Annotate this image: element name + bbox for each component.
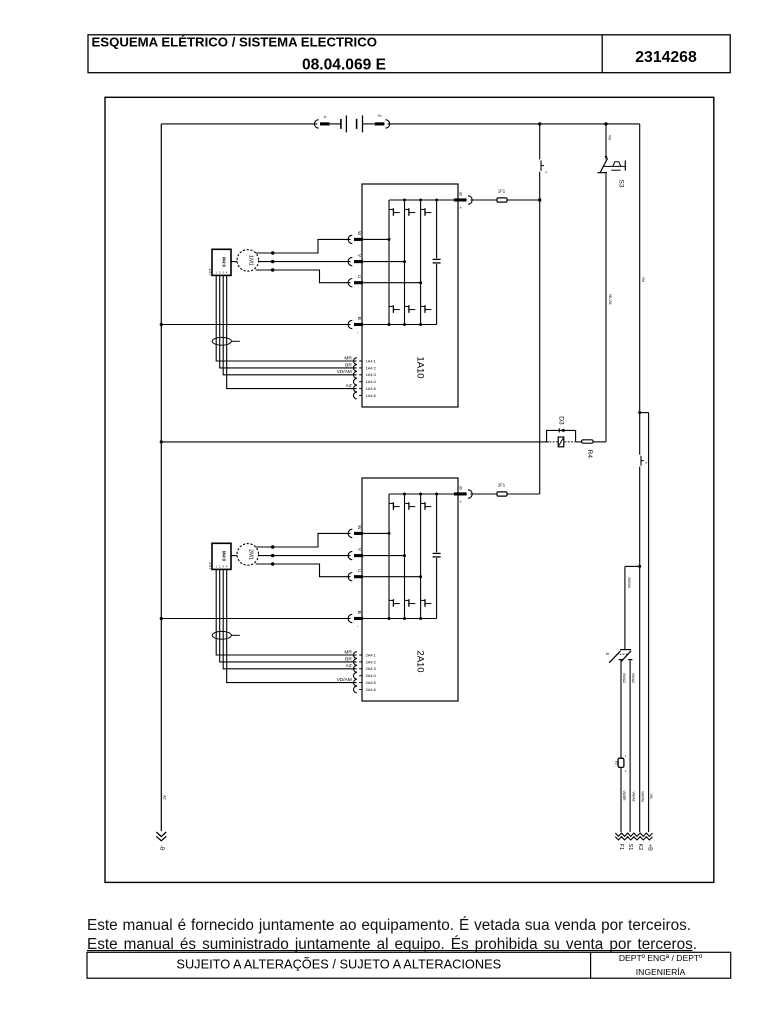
svg-text:D3: D3 [557, 416, 564, 425]
wire [576, 441, 582, 443]
svg-text:-b: -b [323, 115, 326, 119]
switch K1 top bar [620, 649, 631, 651]
terminal 1A4:6 [354, 392, 357, 399]
bridge leg 2 of 2A10 [404, 494, 406, 619]
svg-text:U: U [357, 569, 362, 573]
switch K1 contact ticks [619, 659, 623, 661]
svg-text:2A4:2: 2A4:2 [366, 659, 376, 664]
svg-text:AZ: AZ [346, 663, 352, 669]
title block frame [88, 35, 730, 73]
schematic border frame [105, 97, 714, 882]
svg-text:M4:0: M4:0 [222, 551, 227, 562]
manual note line 1 [87, 918, 691, 933]
footer table divider [590, 952, 592, 978]
wire branch to +B line [640, 412, 649, 414]
terminal 1A4:3 [354, 372, 357, 379]
wire 2X7 to motor [231, 555, 237, 557]
svg-text:+: + [460, 206, 463, 211]
wire 540 line upper [539, 124, 541, 159]
svg-text:1A4:1: 1A4:1 [366, 358, 376, 363]
svg-text:VD-VM: VD-VM [608, 294, 612, 305]
wire K1 right to S1 break [629, 660, 631, 832]
connector 1X7 [212, 249, 231, 275]
switch S3 actuator end bar [624, 160, 626, 170]
terminal 2A4:5 [353, 679, 356, 686]
wire 2X7 pin2 BR [220, 569, 357, 662]
svg-text:W: W [357, 231, 362, 236]
svg-text:a: a [545, 170, 547, 174]
terminal B+ of 1A10 [454, 198, 467, 201]
svg-text:VM: VM [608, 135, 612, 140]
bridge leg 1 of 2A10 [388, 494, 390, 619]
capacitor leg of 2A10 [436, 494, 438, 552]
svg-text:W: W [357, 525, 362, 530]
svg-text:VD/BR: VD/BR [622, 790, 626, 801]
svg-text:1: 1 [215, 270, 217, 274]
svg-text:2A4:1: 2A4:1 [366, 652, 376, 657]
svg-text:a: a [645, 461, 647, 465]
terminal 1A4:5 [354, 385, 357, 392]
wire right bus lower [639, 467, 641, 833]
motor 2M1 [237, 544, 259, 566]
svg-text:K2: K2 [637, 844, 643, 851]
terminal 1A4:2 [354, 365, 357, 372]
terminal W of 1A10 [348, 235, 352, 243]
motor 1M1 [237, 250, 259, 272]
svg-text:S3: S3 [618, 180, 625, 188]
node junctions top bus [403, 199, 406, 202]
svg-text:1M1: 1M1 [247, 255, 253, 266]
svg-text:2: 2 [219, 270, 221, 274]
wire B+ to fuse 2F1 [471, 493, 498, 495]
wire 1X7 pin1 MR [216, 275, 356, 361]
svg-text:2A4:3: 2A4:3 [366, 666, 376, 671]
wire 1X7 to motor [231, 261, 237, 263]
svg-text:1A4:6: 1A4:6 [366, 393, 376, 398]
manual note line 2 [87, 937, 697, 952]
svg-text:2A10: 2A10 [415, 650, 426, 672]
converter box 2A10 [362, 478, 458, 701]
svg-text:1A4:3: 1A4:3 [366, 372, 376, 377]
terminal B- of 2A10 [348, 614, 352, 622]
wire 1X7 pin2 BR [220, 275, 357, 368]
node junction right bus to K1 branch [638, 565, 641, 568]
wire break zigzag band [615, 833, 652, 836]
footer underline [87, 950, 693, 952]
motor terminal dots [271, 545, 274, 548]
switch S3 bottom contact bar [598, 172, 607, 174]
wire motor V phase [259, 261, 351, 263]
svg-text:B: B [357, 317, 362, 320]
transistor top leg1 [389, 502, 393, 504]
svg-text:VM/AZ: VM/AZ [622, 673, 626, 683]
wire motor W phase [256, 239, 351, 253]
transistor top leg2 [405, 208, 409, 210]
svg-text:B: B [459, 485, 462, 490]
wire top bus left [161, 123, 317, 125]
node junction left bus / B wire 1 [160, 323, 163, 326]
svg-text:4: 4 [226, 270, 228, 274]
wire motor V phase [259, 555, 351, 557]
svg-text:V: V [357, 254, 362, 258]
wire motor U phase [256, 564, 351, 577]
wire S3 lower to R4 row [605, 173, 607, 442]
transistor bottom leg1 [389, 599, 393, 601]
svg-text:2A4:4: 2A4:4 [366, 673, 377, 678]
transistor bottom leg2 [405, 305, 409, 307]
svg-text:1F1: 1F1 [498, 188, 506, 193]
wire U internal [364, 282, 421, 284]
svg-text:INGENIERÍA: INGENIERÍA [636, 967, 686, 977]
svg-text:MR: MR [344, 355, 352, 361]
cable clamp on 2X7 harness [212, 631, 231, 639]
svg-text:+B: +B [646, 844, 652, 851]
svg-text:VM/VM: VM/VM [640, 791, 644, 802]
wire internal bottom bus [364, 324, 437, 326]
battery G1 cell plates [340, 119, 342, 129]
cable clamp on 1X7 harness [212, 337, 231, 345]
svg-text:-: - [357, 624, 359, 629]
wire V internal [364, 555, 405, 557]
terminal 2A4:6 [354, 686, 357, 693]
terminal W of 2A10 [348, 529, 352, 537]
node junctions bottom bus [388, 617, 391, 620]
bridge leg 2 of 1A10 [404, 200, 406, 325]
svg-text:F2: F2 [614, 761, 618, 765]
capacitor leg of 1A10 [436, 200, 438, 258]
node junctions bottom bus [388, 323, 391, 326]
svg-text:U: U [357, 275, 362, 279]
transistor top leg1 [389, 208, 393, 210]
svg-text:V: V [357, 548, 362, 552]
wire B bus from left bus [161, 618, 350, 620]
svg-text:BR: BR [345, 362, 352, 368]
svg-text:1A4:5: 1A4:5 [366, 386, 376, 391]
svg-text:-B: -B [159, 845, 165, 851]
svg-text:08.04.069 E: 08.04.069 E [302, 56, 386, 73]
svg-text:VM: VM [641, 277, 645, 282]
net arrow -B chevrons [156, 832, 166, 837]
wire B bus from left bus [161, 324, 350, 326]
wire R4 to S3 riser [593, 441, 606, 443]
transistor bottom leg1 [389, 305, 393, 307]
svg-text:1K: 1K [605, 652, 610, 656]
connector break a on right bus [640, 456, 642, 466]
svg-text:BR: BR [345, 656, 352, 662]
node junction left bus / separator wire [160, 440, 163, 443]
svg-text:VM/VM: VM/VM [627, 577, 631, 588]
terminal B+ of 2A10 [454, 492, 467, 495]
battery G1 negative connector [314, 120, 318, 128]
fuse 2F1 [497, 492, 507, 496]
bypass loop with diode D3 [547, 430, 576, 442]
svg-text:3: 3 [222, 564, 224, 568]
wire 2X7 pin1 MR [216, 569, 356, 655]
wire B+ to fuse 1F1 [471, 199, 498, 201]
switch K1 dashed link [617, 653, 628, 655]
svg-text:VD/AM: VD/AM [337, 369, 352, 375]
wire 540 line lower [539, 172, 541, 494]
wire 1X7 pin4 AZ [227, 275, 357, 388]
fuse 1F1 [497, 198, 507, 202]
connector 2X7 [212, 543, 231, 569]
motor terminal dots [271, 251, 274, 254]
terminal U of 2A10 [348, 573, 352, 581]
terminal U of 1A10 [348, 279, 352, 287]
terminal B- of 1A10 [348, 320, 352, 328]
battery G1 positive connector [375, 122, 385, 125]
svg-text:1: 1 [215, 564, 217, 568]
wire fuse 2F1 to bus [507, 493, 540, 495]
svg-text:F1: F1 [618, 844, 624, 850]
svg-text:2314268: 2314268 [635, 49, 697, 66]
svg-text:+: + [460, 500, 463, 505]
svg-text:S1: S1 [627, 844, 633, 851]
svg-text:ESQUEMA ELÉTRICO / SISTEMA ELE: ESQUEMA ELÉTRICO / SISTEMA ELECTRICO [92, 34, 378, 49]
svg-text:SUJEITO A ALTERAÇÕES / SUJETO: SUJEITO A ALTERAÇÕES / SUJETO A ALTERACI… [176, 957, 501, 972]
terminal 2A4:2 [353, 659, 356, 666]
wire 1X7 pin3 VD/AM [223, 275, 356, 374]
svg-text:DEPTº ENGª / DEPTº: DEPTº ENGª / DEPTº [619, 953, 703, 963]
svg-text:VM: VM [649, 794, 653, 799]
svg-text:1A4:4: 1A4:4 [366, 379, 377, 384]
svg-text:1X7: 1X7 [208, 268, 213, 276]
svg-text:AZ: AZ [346, 383, 352, 389]
transistor bottom leg3 [421, 305, 425, 307]
wire separator row from left bus [161, 441, 549, 443]
wire dashed into D3 [550, 441, 558, 443]
node junction top bus / S3 line [604, 122, 607, 125]
svg-text:MR: MR [344, 649, 352, 655]
transistor bottom leg3 [421, 599, 425, 601]
title block divider [601, 35, 603, 73]
switch S3 actuator cam [613, 162, 621, 167]
diode D3 symbol [558, 428, 560, 432]
svg-text:VM/AZ: VM/AZ [631, 791, 635, 801]
switch S3 actuator link [603, 165, 626, 167]
wire branch to switch K1 [625, 565, 640, 567]
svg-text:M4:0: M4:0 [222, 257, 227, 268]
transistor top leg3 [421, 208, 425, 210]
switch K1 blade right [621, 651, 631, 662]
wire internal top bus [389, 493, 454, 495]
wire [330, 123, 341, 125]
wire U internal [364, 576, 421, 578]
footer table frame [87, 952, 731, 978]
wire 2X7 pin4 VD/AM [227, 569, 357, 682]
svg-text:2: 2 [625, 769, 627, 773]
transistor top leg2 [405, 502, 409, 504]
node junction left bus / B wire 2 [160, 617, 163, 620]
wire W internal [364, 238, 390, 240]
svg-text:2A4:5: 2A4:5 [366, 680, 376, 685]
switch S3 actuator base [611, 169, 620, 171]
terminal 2A4:4 [353, 672, 356, 679]
svg-text:-: - [357, 330, 359, 335]
wire [363, 123, 375, 125]
switch K1 blade left [609, 651, 620, 663]
bridge leg 1 of 1A10 [388, 200, 390, 325]
svg-text:+b: +b [377, 114, 381, 118]
svg-text:4: 4 [226, 564, 228, 568]
transistor bottom leg2 [405, 599, 409, 601]
terminal 2A4:3 [353, 666, 356, 673]
wire 2X7 pin3 AZ [223, 569, 356, 668]
wire S3 upper [605, 124, 607, 158]
wire internal top bus [389, 199, 454, 201]
wire top bus right [388, 123, 640, 125]
wire W internal [364, 532, 390, 534]
wire K1 left to fuse F2 [620, 660, 622, 758]
svg-text:2X7: 2X7 [208, 562, 213, 570]
wire fuse F2 to F1 break [620, 767, 622, 832]
terminal 2A4:1 [354, 652, 357, 659]
bridge leg 3 of 2A10 [420, 494, 422, 619]
svg-text:B: B [459, 191, 462, 196]
terminal 1A4:4 [354, 378, 357, 385]
svg-text:AZ: AZ [162, 795, 166, 799]
wire right bus upper [639, 124, 641, 455]
wire left bus [160, 124, 162, 831]
svg-text:2: 2 [219, 564, 221, 568]
wire motor W phase [256, 533, 351, 547]
terminal V of 1A10 [348, 257, 352, 265]
wire internal bottom bus [364, 618, 437, 620]
svg-text:1A4:2: 1A4:2 [366, 365, 376, 370]
svg-text:1A10: 1A10 [415, 356, 426, 378]
transistor top leg3 [421, 502, 425, 504]
terminal 1A4:1 [354, 358, 357, 365]
svg-text:2F1: 2F1 [498, 482, 506, 487]
switch S3 blade [600, 158, 607, 172]
svg-text:VM/AZ: VM/AZ [631, 673, 635, 683]
terminal V of 2A10 [348, 551, 352, 559]
svg-text:1: 1 [625, 754, 627, 758]
fuse F2 [618, 758, 624, 767]
wire motor U phase [256, 270, 351, 283]
node junction 540 / 1F1 wire [538, 198, 541, 201]
svg-text:B: B [357, 611, 362, 614]
svg-text:R4: R4 [586, 450, 593, 459]
connector break a on 540 line [540, 160, 542, 171]
wire V internal [364, 261, 405, 263]
node junction right bus branch +B [638, 411, 641, 414]
resistor R4 [582, 440, 594, 443]
converter box 1A10 [362, 184, 458, 407]
diode module D3 box [558, 437, 564, 447]
svg-text:3: 3 [222, 270, 224, 274]
wire dashed out of D3 [565, 441, 575, 443]
svg-text:2A4:6: 2A4:6 [366, 687, 376, 692]
wire fuse 1F1 to bus [507, 199, 540, 201]
node junctions top bus [403, 493, 406, 496]
node junction top bus / 540 line [538, 122, 541, 125]
svg-text:2M1: 2M1 [247, 549, 253, 560]
svg-text:VD/AM: VD/AM [337, 677, 352, 683]
switch S3 contact arrow [605, 156, 608, 159]
bridge leg 3 of 1A10 [420, 200, 422, 325]
